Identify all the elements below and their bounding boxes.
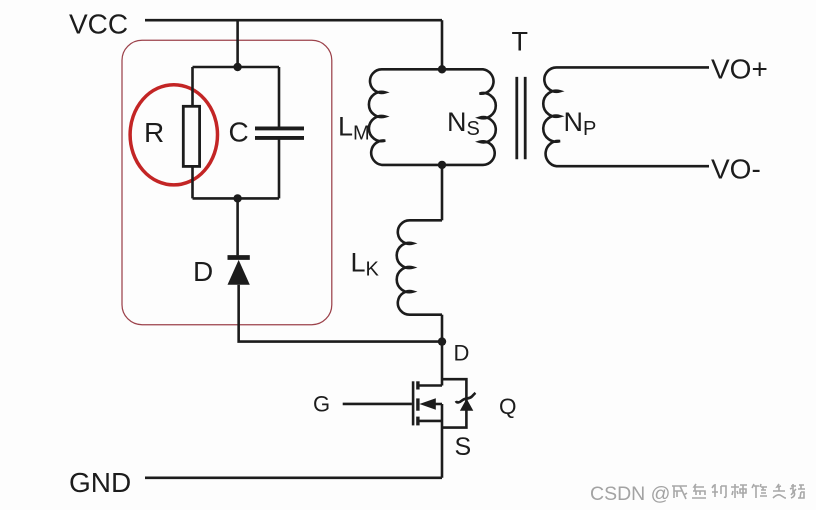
- wire C top lead: [278, 67, 281, 127]
- wire VCC rail: [145, 19, 442, 22]
- junction transformer bottom: [438, 161, 446, 169]
- svg-text:Q: Q: [499, 394, 517, 419]
- svg-text:T: T: [512, 27, 529, 57]
- gate electrode: [412, 381, 415, 425]
- junction drain node: [438, 337, 446, 345]
- wire snubber top rail: [193, 66, 280, 69]
- highlight ellipse around R: [130, 85, 217, 185]
- wire snubber bottom rail: [193, 197, 280, 200]
- junction snubber top: [233, 63, 241, 71]
- winding NP: [543, 67, 709, 166]
- svg-text:VO+: VO+: [711, 54, 768, 85]
- wire drain: [441, 342, 444, 386]
- svg-text:S: S: [455, 433, 472, 461]
- svg-text:VCC: VCC: [69, 9, 128, 40]
- svg-text:C: C: [229, 117, 249, 148]
- resistor R: [183, 106, 199, 166]
- body to source connection: [435, 403, 442, 406]
- diode D: [228, 255, 250, 285]
- capacitor C: [255, 128, 304, 138]
- mosfet Q: [343, 379, 476, 478]
- wire source: [441, 404, 444, 478]
- junction snubber bottom: [233, 194, 241, 202]
- watermark chinese glyphs: [672, 484, 805, 499]
- gate lead wire: [343, 403, 412, 406]
- junction transformer top: [438, 65, 446, 73]
- body arrow: [419, 398, 435, 410]
- wire R top lead: [191, 67, 194, 106]
- body diode loop: [442, 379, 466, 427]
- drain connection: [419, 384, 442, 387]
- wire diode to LK node: [239, 285, 442, 342]
- wire VCC to snubber: [236, 20, 239, 67]
- svg-text:D: D: [454, 341, 470, 366]
- channel bar body segment: [416, 398, 419, 410]
- watermark CSDN: [590, 483, 670, 505]
- wire GND rail: [145, 476, 442, 479]
- svg-text:VO-: VO-: [711, 154, 761, 185]
- wire transformer to LK: [441, 165, 444, 220]
- svg-text:R: R: [144, 117, 164, 148]
- channel bar drain segment: [416, 381, 419, 389]
- svg-text:G: G: [313, 392, 330, 417]
- svg-text:D: D: [193, 256, 213, 287]
- body diode: [460, 399, 473, 411]
- channel bar source segment: [416, 417, 419, 426]
- wire LK to drain node: [441, 315, 444, 342]
- wire C bottom lead: [278, 139, 281, 198]
- wire snubber to diode: [236, 198, 239, 255]
- wire R bottom lead: [191, 166, 194, 198]
- inductor LK: [397, 220, 442, 314]
- transformer core: [515, 77, 518, 159]
- source connection: [419, 420, 442, 423]
- wire VCC to transformer: [441, 20, 444, 69]
- svg-text:GND: GND: [69, 467, 131, 498]
- transformer primary LM NS parallel loop: [369, 69, 496, 165]
- svg-text:CSDN @: CSDN @: [590, 483, 670, 505]
- body diode cathode squiggle: [456, 393, 476, 403]
- snubber enclosure box: [122, 40, 332, 324]
